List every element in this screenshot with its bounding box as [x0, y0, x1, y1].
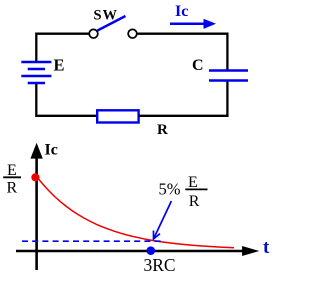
discharge curve — [37, 177, 234, 248]
label E/R on y-axis — [3, 162, 21, 197]
battery E — [21, 62, 51, 83]
svg-text:E: E — [7, 162, 17, 179]
label 5% E/R — [159, 174, 208, 210]
svg-text:t: t — [263, 237, 270, 258]
svg-text:C: C — [192, 57, 204, 74]
resistor R — [97, 110, 138, 122]
pointer arrow to 5% level — [154, 201, 172, 239]
svg-text:R: R — [157, 122, 168, 138]
svg-text:SW: SW — [94, 8, 118, 24]
svg-text:Ic: Ic — [45, 142, 58, 159]
wire top-right segment — [137, 34, 227, 70]
node initial current (red dot) — [31, 173, 39, 181]
svg-text:Ic: Ic — [175, 3, 188, 20]
node 3RC (blue dot) — [147, 246, 156, 255]
wire top-left segment — [36, 34, 89, 62]
svg-text:E: E — [54, 56, 65, 75]
switch SW left contact — [89, 29, 98, 38]
svg-text:R: R — [189, 193, 200, 210]
switch SW blade — [98, 16, 126, 31]
wire left-bottom segment — [36, 84, 97, 116]
graph x-axis — [16, 246, 259, 256]
svg-text:E: E — [188, 174, 198, 191]
capacitor C — [209, 71, 248, 81]
5% level dashed line — [22, 240, 164, 242]
wire bottom-right segment — [139, 81, 228, 116]
svg-text:R: R — [7, 179, 18, 196]
graph y-axis — [30, 143, 42, 270]
svg-text:3RC: 3RC — [144, 255, 176, 275]
current arrow Ic — [170, 19, 216, 29]
svg-text:5%: 5% — [159, 179, 181, 198]
switch SW right contact — [128, 29, 137, 38]
